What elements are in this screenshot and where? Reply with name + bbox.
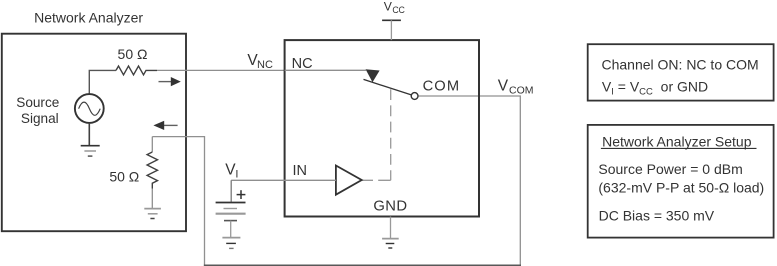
resistor R 50 ohm series: [116, 66, 157, 75]
power rail Vcc bar: [382, 19, 401, 21]
svg-text:COM: COM: [509, 85, 534, 97]
ground (shunt resistor): [144, 208, 161, 210]
arrow annotation (left, from COM loop): [163, 124, 178, 126]
svg-text:DC Bias = 350 mV: DC Bias = 350 mV: [599, 208, 715, 224]
wire: IC GND to ground: [390, 217, 392, 239]
svg-text:NC: NC: [257, 59, 273, 71]
svg-text:Source: Source: [16, 95, 59, 110]
network analyzer box: [2, 34, 186, 232]
svg-text:IN: IN: [293, 163, 308, 179]
svg-text:Source Power = 0 dBm: Source Power = 0 dBm: [598, 161, 742, 177]
svg-text:(632-mV P-P at 50-Ω load): (632-mV P-P at 50-Ω load): [598, 179, 764, 195]
wire: Vi to IN pin to buffer: [231, 179, 336, 181]
wire: source to series resistor: [89, 70, 116, 94]
wire: shunt resistor top lead: [151, 137, 153, 152]
switch lever: [364, 79, 412, 95]
wire: shunt resistor to ground: [151, 189, 153, 209]
note box 2 title underline: [601, 147, 757, 149]
svg-text:NC: NC: [292, 56, 313, 72]
note box 2: [588, 125, 774, 238]
svg-text:50 Ω: 50 Ω: [118, 46, 148, 62]
svg-text:50 Ω: 50 Ω: [109, 168, 139, 184]
wire: battery top lead: [230, 180, 232, 202]
svg-text:Signal: Signal: [21, 111, 59, 126]
buffer amplifier: [336, 166, 362, 195]
note box 1: [588, 44, 774, 100]
wire: NC pin to switch: [285, 69, 366, 71]
ground (battery): [222, 237, 240, 239]
switch throw arrowhead: [366, 69, 380, 82]
ground (source): [81, 145, 100, 147]
svg-text:Network Analyzer: Network Analyzer: [34, 10, 143, 26]
svg-text:Network Analyzer Setup: Network Analyzer Setup: [602, 133, 752, 149]
dashed control line: [390, 89, 392, 180]
arrow annotation (right, into NC): [159, 81, 173, 83]
label: plus: [237, 194, 246, 196]
resistor R 50 ohm shunt (vertical): [147, 152, 157, 189]
svg-text:CC: CC: [392, 5, 405, 15]
svg-text:VI = VCC or GND: VI = VCC or GND: [602, 79, 708, 98]
svg-text:COM: COM: [423, 79, 461, 95]
svg-text:I: I: [235, 168, 238, 180]
wire: Vcc to IC: [390, 20, 392, 40]
switch pole contact circle: [411, 93, 418, 100]
wire: resistor to NC pin: [157, 69, 366, 71]
wire: source to ground: [88, 123, 90, 146]
wire: battery to ground: [230, 221, 232, 237]
IC box: [285, 40, 479, 216]
ground (IC GND): [382, 238, 399, 240]
wire: return loop COM to shunt resistor: [418, 96, 520, 265]
svg-text:Channel ON: NC to COM: Channel ON: NC to COM: [602, 57, 759, 73]
svg-text:V: V: [498, 77, 509, 94]
svg-text:GND: GND: [373, 199, 407, 215]
battery V_I: [216, 202, 246, 204]
source signal AC source: [75, 94, 104, 123]
